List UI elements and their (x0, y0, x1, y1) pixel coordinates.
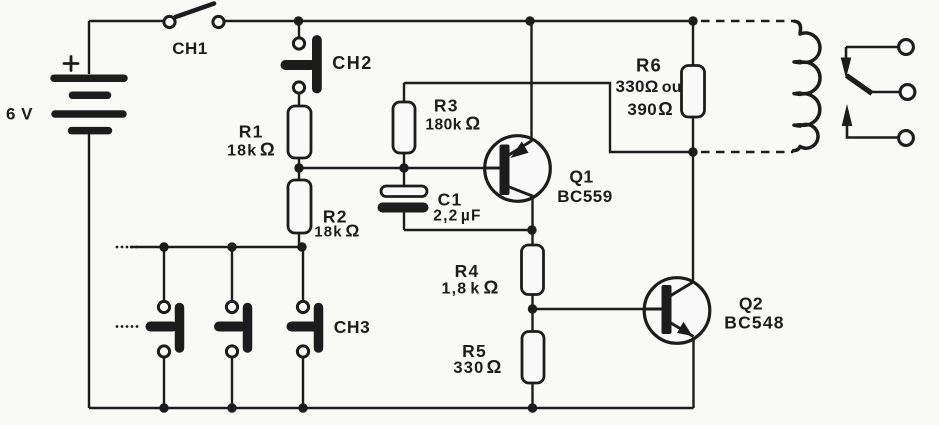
svg-text:CH1: CH1 (172, 39, 208, 58)
svg-text:2,2µF: 2,2µF (433, 208, 481, 225)
svg-text:18kΩ: 18kΩ (314, 221, 360, 241)
svg-text:Q2: Q2 (739, 294, 763, 314)
svg-text:1,8kΩ: 1,8kΩ (442, 277, 500, 298)
svg-text:R3: R3 (434, 96, 459, 116)
svg-text:Q1: Q1 (569, 167, 593, 187)
svg-text:BC548: BC548 (724, 313, 784, 333)
svg-text:6 V: 6 V (6, 105, 33, 124)
svg-text:CH2: CH2 (332, 53, 373, 73)
svg-text:C1: C1 (438, 190, 463, 210)
svg-text:180kΩ: 180kΩ (425, 113, 480, 134)
svg-text:BC559: BC559 (557, 187, 612, 206)
svg-text:330Ωou: 330Ωou (616, 77, 682, 96)
svg-text:18kΩ: 18kΩ (227, 139, 276, 160)
svg-text:390Ω: 390Ω (627, 99, 673, 119)
svg-text:R4: R4 (455, 261, 480, 281)
svg-text:R6: R6 (636, 55, 662, 76)
svg-text:330Ω: 330Ω (453, 356, 502, 377)
svg-text:CH3: CH3 (334, 317, 371, 337)
svg-text:R5: R5 (462, 341, 487, 361)
